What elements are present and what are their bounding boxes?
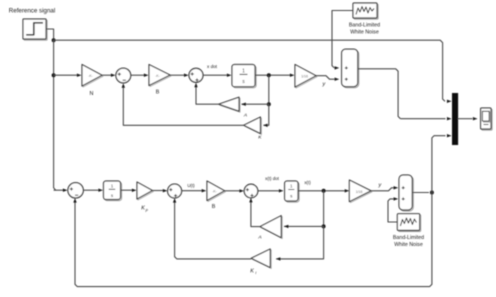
- svg-text:i: i: [255, 270, 256, 275]
- gain T (top output gain): [296, 66, 317, 89]
- wire: A out up to sum B3: [251, 202, 260, 227]
- node: state branch junction (top): [267, 73, 271, 77]
- wire: into gain A (top): [242, 103, 269, 105]
- noise icon (bottom): [400, 218, 416, 226]
- node: state branch junction (bottom): [322, 189, 326, 193]
- node: A feedback junction (top): [267, 102, 271, 106]
- svg-text:-K-: -K-: [88, 74, 93, 78]
- arrow into mux in2: [447, 117, 452, 120]
- arrow into gain A (bottom): [284, 225, 289, 228]
- wire: down to gain Ki: [276, 226, 323, 259]
- sum B3 plus sign: [246, 188, 249, 191]
- sum B1 plus sign: [70, 187, 73, 190]
- wire: sum B3 to integrator: [258, 190, 280, 192]
- arrow into gain B (bottom): [202, 189, 207, 192]
- arrow into sum2: [184, 74, 189, 77]
- svg-text:1: 1: [111, 184, 114, 189]
- svg-text:y: y: [321, 82, 325, 88]
- wire: T out to add (jog): [316, 76, 335, 80]
- step source block: [24, 20, 47, 40]
- wire: arrow into mux in1: [447, 100, 452, 103]
- arrow into integrator (top): [227, 74, 232, 77]
- gain N: [83, 66, 103, 88]
- wire: add (bottom) output: [412, 192, 429, 194]
- arrow into integrator B1: [98, 189, 103, 192]
- svg-text:1: 1: [290, 184, 293, 189]
- sum junction S2 (top): [189, 68, 203, 82]
- arrow into sum B2: [163, 189, 168, 192]
- add block (bottom): [400, 176, 413, 211]
- wire: add (top) out to mux: [358, 69, 401, 119]
- svg-text:x dot: x dot: [207, 64, 218, 69]
- sum S1 plus sign: [118, 73, 121, 76]
- wire: state branch down (top): [268, 75, 270, 104]
- sum junction B2 (bottom): [168, 184, 182, 198]
- wire: down to gain K (top): [264, 104, 269, 125]
- gain Kp: [138, 183, 153, 200]
- wire: left trunk down to bottom sum: [54, 40, 56, 190]
- svg-text:B: B: [212, 204, 216, 210]
- arrow into gain B: [144, 74, 149, 77]
- sum junction S1 (top): [116, 68, 131, 83]
- wire: noise (bottom) to add in2: [388, 199, 397, 222]
- scope base line: [484, 124, 489, 126]
- svg-text:Band-Limited: Band-Limited: [349, 23, 380, 29]
- wire: step output: [46, 29, 54, 40]
- sum B2 plus sign: [169, 188, 172, 191]
- arrow into gain K (top): [263, 124, 268, 127]
- wire: N to sum1: [102, 74, 112, 76]
- gain A (bottom): [261, 217, 282, 239]
- integrator (bottom-left) fraction bar: [109, 188, 115, 190]
- gain B (bottom): [208, 182, 226, 202]
- svg-text:White Noise: White Noise: [394, 242, 423, 248]
- svg-text:K: K: [250, 269, 254, 275]
- wire: trunk into sum B1: [54, 189, 64, 191]
- add (top) plus in2: [345, 78, 348, 81]
- arrow into sum1: [111, 74, 116, 77]
- svg-text:Band-Limited: Band-Limited: [393, 235, 424, 241]
- step source icon: [26, 23, 43, 35]
- arrow into scope: [473, 117, 478, 120]
- svg-text:-K-: -K-: [212, 189, 217, 193]
- add (bottom) plus in2: [402, 197, 405, 200]
- arrow into gain Y: [345, 189, 350, 192]
- svg-text:y: y: [377, 182, 381, 188]
- svg-text:U(t): U(t): [187, 183, 195, 188]
- wire: B to sum B3: [225, 190, 241, 192]
- wire: sum2 to integrator: [203, 74, 228, 76]
- node: output junction (bottom): [430, 191, 434, 195]
- arrow into gain T: [290, 74, 295, 77]
- wire: Ki out to sum B2: [175, 202, 252, 259]
- wire: Y out to add (jog): [371, 188, 394, 191]
- arrow into gain N: [77, 74, 82, 77]
- arrow up into sum B1: [73, 198, 76, 203]
- arrow up into sum B3: [249, 198, 252, 203]
- arrow into sum B1: [63, 189, 68, 192]
- gain A (top): [220, 98, 240, 112]
- node: top-chain branch junction: [52, 73, 56, 77]
- add (bottom) plus in1: [402, 186, 405, 189]
- arrow into sum B3: [239, 189, 244, 192]
- svg-text:A: A: [257, 235, 261, 241]
- sum B3 bottom plus sign: [250, 194, 253, 197]
- wire: A out up to sum2: [196, 87, 219, 105]
- wire: output up to mux in3: [432, 136, 446, 193]
- wire: mux output: [458, 118, 473, 120]
- wire: sum B2 to gain B: [182, 190, 203, 192]
- band-limited white noise block (bottom): [399, 215, 421, 232]
- sum S2 plus sign: [191, 72, 194, 75]
- mux block: [452, 93, 458, 145]
- wire: output feedback down and around: [75, 193, 432, 287]
- sum junction B1 (bottom): [68, 183, 83, 198]
- gain K (top): [245, 118, 262, 135]
- gain B (top): [150, 66, 171, 87]
- sum B2 bottom plus sign: [174, 194, 177, 197]
- wire: sum1 to gain B: [131, 74, 145, 76]
- add (top) plus in1: [345, 66, 348, 69]
- svg-text:1/16: 1/16: [356, 190, 363, 194]
- noise icon (top): [356, 7, 374, 15]
- scope screen: [484, 112, 491, 122]
- wire: into mux in2: [400, 118, 445, 120]
- svg-text:White Noise: White Noise: [350, 30, 379, 36]
- wire: state branch down (bottom): [323, 191, 325, 227]
- band-limited white noise block (top): [354, 4, 378, 19]
- arrow into add in2 (bottom): [394, 197, 399, 200]
- wire: trunk to gain N: [54, 74, 78, 76]
- svg-text:K: K: [141, 206, 145, 212]
- wire: K out to sum1: [123, 87, 243, 125]
- arrow up into sum1: [122, 83, 125, 88]
- svg-text:A: A: [243, 113, 247, 119]
- integrator (bottom-right) fraction bar: [288, 189, 294, 191]
- add block (top): [343, 50, 359, 87]
- svg-text:1: 1: [242, 69, 245, 75]
- integrator 1/s (top): [233, 66, 256, 88]
- sum B1 minus sign: [75, 194, 78, 196]
- wire: B to sum2: [170, 74, 185, 76]
- wire: integrator out to T gain: [255, 74, 290, 76]
- wire: sum B1 to integrator: [83, 189, 99, 191]
- arrow into add in1 (bottom): [394, 186, 399, 189]
- sum S2 bottom plus sign: [195, 78, 198, 81]
- arrow into add in2 (top): [335, 78, 340, 81]
- wire: into gain A (bottom): [284, 225, 324, 227]
- wire: Kp to sum B2: [152, 190, 163, 192]
- arrow up into sum2: [194, 83, 197, 88]
- integrator (top) fraction bar: [240, 73, 248, 75]
- integrator 1/s (bottom-right): [286, 182, 299, 202]
- wire: noise (top) to add in1: [332, 11, 353, 68]
- node: step branch junction: [52, 38, 56, 42]
- sum S1 minus sign: [123, 79, 126, 81]
- gain Ki: [252, 250, 271, 269]
- arrow into integrator (bottom-right): [279, 189, 284, 192]
- arrow into mux in3: [447, 134, 452, 137]
- scope block: [482, 109, 492, 130]
- svg-text:N: N: [90, 91, 94, 97]
- sum junction B3 (bottom): [244, 184, 258, 198]
- wire: reference to mux (top long run): [54, 40, 445, 101]
- svg-text:Reference signal: Reference signal: [9, 8, 55, 15]
- svg-text:-K-: -K-: [155, 74, 160, 78]
- svg-text:B: B: [156, 90, 160, 96]
- arrow into add in1 (top): [335, 66, 340, 69]
- arrow into gain Kp: [132, 189, 137, 192]
- svg-text:x(t) dot: x(t) dot: [265, 176, 279, 181]
- integrator 1/s (bottom-left): [105, 182, 122, 201]
- arrow into gain A (top): [241, 103, 246, 106]
- arrow up into sum B2: [173, 198, 176, 203]
- gain Y (bottom output gain): [350, 181, 372, 203]
- svg-text:x(t): x(t): [304, 180, 311, 185]
- svg-text:1/16: 1/16: [301, 75, 308, 79]
- wire: integrator to gain Kp: [121, 189, 133, 191]
- arrow into gain Ki: [276, 257, 281, 260]
- wire: integrator out to gain Y: [298, 190, 345, 192]
- node: A feedback junction (bottom): [322, 224, 326, 228]
